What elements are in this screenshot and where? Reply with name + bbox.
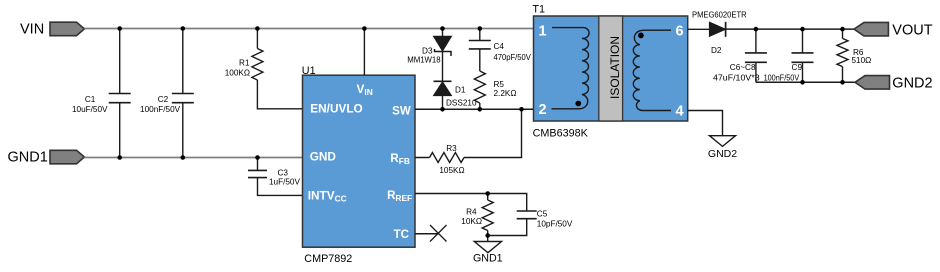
wire GND2 rail <box>756 81 855 83</box>
svg-text:GND2: GND2 <box>892 76 932 92</box>
junction node (364.4,28.5) <box>362 26 367 31</box>
svg-text:R4: R4 <box>466 208 477 217</box>
junction node (755.9,29.1) <box>754 27 759 32</box>
resistor R4 <box>482 200 493 231</box>
svg-text:10KΩ: 10KΩ <box>461 217 482 226</box>
junction node (182.8,28.5) <box>181 26 186 31</box>
junction node (487.7,193.5) <box>485 191 490 196</box>
svg-text:D1: D1 <box>455 85 466 94</box>
svg-text:100KΩ: 100KΩ <box>225 68 250 77</box>
junction node (119.7,28.5) <box>117 26 122 31</box>
junction node (479.8,28.5) <box>478 26 483 31</box>
svg-text:MM1W18: MM1W18 <box>407 55 441 64</box>
svg-text:47uF/10V*3: 47uF/10V*3 <box>713 73 760 82</box>
diode D3 MM1W18 (zener) <box>442 29 444 37</box>
svg-text:D2: D2 <box>711 46 722 55</box>
wire VIN top rail <box>84 28 533 30</box>
resistor R5 <box>474 71 485 103</box>
primary winding <box>552 28 590 109</box>
IC U1 CMP7892 block <box>303 75 416 247</box>
junction node (182.8,157.5) <box>181 155 186 160</box>
svg-text:VOUT: VOUT <box>892 23 932 39</box>
svg-text:D3: D3 <box>422 46 433 55</box>
terminal GND1 <box>50 150 84 164</box>
terminal VOUT <box>854 22 888 36</box>
junction node (802.5,82.3) <box>800 80 805 85</box>
capacitor C2 <box>182 29 184 158</box>
junction node (802.5,29.1) <box>800 27 805 32</box>
svg-text:TC: TC <box>394 229 409 241</box>
svg-text:DSS210: DSS210 <box>446 98 477 107</box>
svg-text:105KΩ: 105KΩ <box>439 166 464 175</box>
diode D2 PMEG6020ETR <box>709 22 725 36</box>
resistor R6 <box>842 29 844 82</box>
svg-text:10pF/50V: 10pF/50V <box>537 219 573 228</box>
diode D1 DSS210 <box>442 52 444 82</box>
resistor R3 105K <box>415 109 522 157</box>
svg-text:C4: C4 <box>494 42 505 51</box>
svg-text:C6~C8: C6~C8 <box>730 63 756 72</box>
svg-text:100nF/50V: 100nF/50V <box>140 105 181 114</box>
capacitor C4 <box>479 29 481 72</box>
svg-text:C5: C5 <box>537 209 548 218</box>
svg-text:PMEG6020ETR: PMEG6020ETR <box>692 10 747 19</box>
capacitor C9 <box>802 29 804 82</box>
wire SW rail <box>415 108 534 110</box>
junction node (487.7,235.5) <box>485 233 490 238</box>
capacitor C5 <box>517 211 537 219</box>
svg-text:C2: C2 <box>158 95 169 104</box>
svg-text:GND2: GND2 <box>708 148 737 160</box>
svg-text:SW: SW <box>392 105 411 117</box>
svg-text:1: 1 <box>539 23 547 39</box>
svg-text:GND1: GND1 <box>8 149 48 165</box>
ground GND1 <box>474 242 501 253</box>
terminal VIN <box>50 22 84 36</box>
transformer T1 CMB6398K <box>534 16 688 121</box>
wire pin4 to ground <box>688 111 723 136</box>
terminal GND2 <box>855 76 890 90</box>
svg-text:100nF/50V: 100nF/50V <box>764 73 800 82</box>
resistor R1 <box>257 29 302 109</box>
junction node (442.5,28.5) <box>440 26 445 31</box>
svg-text:U1: U1 <box>302 65 316 77</box>
svg-text:CMP7892: CMP7892 <box>304 253 352 265</box>
svg-text:T1: T1 <box>532 3 545 15</box>
junction node (842.5,82.3) <box>840 80 845 85</box>
svg-text:CMB6398K: CMB6398K <box>533 128 589 140</box>
svg-text:1uF/50V: 1uF/50V <box>269 178 300 187</box>
capacitor C3 <box>258 158 303 196</box>
svg-text:C9: C9 <box>792 63 803 72</box>
svg-text:C1: C1 <box>85 95 96 104</box>
svg-text:2.2KΩ: 2.2KΩ <box>494 89 517 98</box>
wire VIN pin <box>363 29 365 76</box>
wire VOUT rail <box>726 28 854 30</box>
svg-text:R3: R3 <box>446 144 457 153</box>
ground GND2 (pin4) <box>710 136 736 147</box>
svg-text:EN/UVLO: EN/UVLO <box>310 101 362 115</box>
svg-text:2: 2 <box>539 102 547 118</box>
svg-text:6: 6 <box>675 23 683 39</box>
svg-text:R5: R5 <box>494 80 505 89</box>
svg-text:R1: R1 <box>239 59 250 68</box>
wire GND1 rail <box>84 157 302 159</box>
wire pin6 to D2 <box>688 28 710 30</box>
capacitor C1 <box>119 29 121 158</box>
junction node (842.5,29.1) <box>840 27 845 32</box>
junction node (119.7,157.5) <box>117 155 122 160</box>
svg-text:VIN: VIN <box>20 21 44 37</box>
svg-text:4: 4 <box>675 103 683 119</box>
wire RREF net <box>415 194 527 242</box>
svg-text:C3: C3 <box>278 169 289 178</box>
secondary winding <box>633 30 671 110</box>
capacitor C6~C8 <box>755 29 757 82</box>
svg-text:ISOLATION: ISOLATION <box>608 36 622 99</box>
junction node (257.5,157.5) <box>255 155 260 160</box>
svg-text:10uF/50V: 10uF/50V <box>72 105 108 114</box>
junction node (257.4,28.5) <box>255 26 260 31</box>
svg-text:GND: GND <box>310 150 337 164</box>
svg-text:470pF/50V: 470pF/50V <box>494 53 532 62</box>
junction node (521.5,109.3) <box>519 107 524 112</box>
junction node (479.8,109.3) <box>478 107 483 112</box>
junction node (442.5,109.3) <box>440 107 445 112</box>
svg-text:GND1: GND1 <box>473 252 503 264</box>
svg-text:510Ω: 510Ω <box>852 56 872 65</box>
wire TC pin no-connect <box>415 233 439 235</box>
